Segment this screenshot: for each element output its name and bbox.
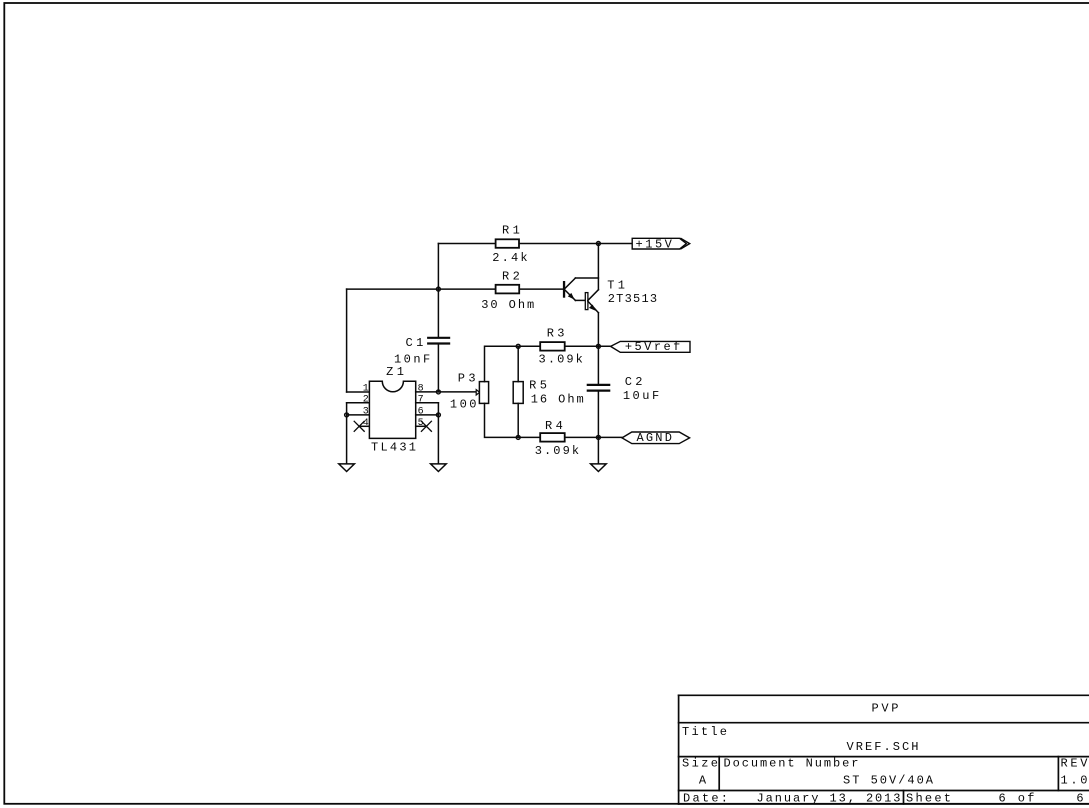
- ground symbol left: [339, 464, 355, 472]
- svg-text:PVP: PVP: [872, 702, 899, 716]
- wire pins 2-3 vertical down to ground: [346, 403, 348, 464]
- net flag AGND: [622, 432, 690, 444]
- transistor T1 Q2 collector diagonal: [588, 290, 599, 301]
- wire R1 row left segment: [438, 243, 495, 245]
- svg-text:3: 3: [363, 407, 369, 418]
- svg-text:4: 4: [363, 418, 369, 429]
- wire collector trunk upper: [597, 244, 599, 290]
- wire R5 bottom: [517, 403, 519, 437]
- wire R1 row right segment to +15V flag: [519, 243, 632, 245]
- resistor R5 body: [513, 382, 523, 404]
- junction R4 row at trunk: [596, 435, 600, 439]
- title block REV column divider: [1057, 757, 1059, 791]
- junction at pin 6: [436, 413, 440, 417]
- svg-text:TL431: TL431: [371, 440, 416, 454]
- ground symbol middle: [431, 464, 447, 472]
- title block Sheet column divider: [903, 791, 905, 804]
- power flag +15V: [632, 238, 690, 249]
- svg-text:Document Number: Document Number: [724, 756, 859, 770]
- svg-text:1: 1: [363, 384, 369, 395]
- wire R5 top: [517, 346, 519, 381]
- wire pin 1 stub: [347, 391, 370, 393]
- wire pins 7-6 vertical down to ground: [437, 403, 439, 464]
- svg-text:1.0: 1.0: [1061, 774, 1088, 788]
- junction at pin 8 and C1 trunk: [436, 390, 440, 394]
- svg-text:3.09k: 3.09k: [539, 353, 583, 367]
- junction at pin 3: [345, 413, 349, 417]
- junction R3 row at R5: [516, 344, 520, 348]
- transistor T1 second base bar: [585, 293, 588, 310]
- wire pin 2 stub: [347, 402, 370, 404]
- transistor T1 base bar: [563, 281, 565, 298]
- ground symbol right: [591, 464, 607, 472]
- svg-text:2: 2: [363, 394, 369, 405]
- no-connect X on pin 5: [421, 421, 431, 431]
- transistor T1 Q1 emitter diagonal with arrow: [565, 290, 575, 300]
- svg-text:REV: REV: [1061, 757, 1089, 771]
- wire R2 row left segment: [347, 288, 496, 290]
- wire R4 row right to AGND flag: [565, 436, 622, 438]
- title block line below Size row: [679, 790, 1089, 792]
- transistor T1 Q2 emitter diagonal with arrow: [588, 301, 599, 313]
- svg-text:6: 6: [418, 407, 424, 418]
- svg-text:Date:: Date:: [683, 791, 728, 805]
- junction at R1 row and collector trunk: [596, 242, 600, 246]
- svg-text:3.09k: 3.09k: [535, 444, 579, 458]
- transistor T1 Q1 emitter horizontal: [575, 299, 585, 301]
- potentiometer P3 body: [479, 382, 488, 404]
- wire pin 5 stub: [416, 425, 427, 427]
- junction at R2 row and trunk: [436, 287, 440, 291]
- wire pin 8 row to P3 arrow: [416, 391, 477, 393]
- title block line below PVP row: [679, 722, 1089, 724]
- svg-text:January 13, 2013: January 13, 2013: [757, 791, 901, 805]
- svg-text:ST 50V/40A: ST 50V/40A: [843, 774, 934, 788]
- wire pin 6 stub: [416, 414, 439, 416]
- title block left edge: [678, 695, 680, 804]
- title block outer top line: [679, 694, 1089, 696]
- potentiometer P3 arrow head: [476, 390, 479, 395]
- wire P3 bottom to R4 row: [485, 403, 541, 437]
- wire R3 row right to +5Vref flag: [565, 345, 611, 347]
- svg-text:+15V: +15V: [636, 237, 673, 251]
- wire R3 row left: [518, 345, 540, 347]
- wire P3 top to R3 row: [485, 346, 519, 381]
- title block line below Title row: [679, 756, 1089, 758]
- svg-text:7: 7: [418, 394, 424, 405]
- capacitor C1: [428, 338, 449, 344]
- wire C2 bottom to R4 row and ground: [597, 392, 599, 464]
- wire pin 4 stub: [359, 425, 369, 427]
- resistor R4: [540, 433, 565, 442]
- transistor T1 Q1 collector diagonal: [565, 278, 575, 288]
- wire vertical trunk from C1 down to pin 8 row: [437, 345, 439, 392]
- wire left vertical from R2 row to pin 1: [346, 289, 348, 392]
- svg-text:100: 100: [450, 398, 477, 412]
- net flag +5Vref: [611, 341, 690, 352]
- capacitor C2: [588, 385, 609, 391]
- svg-text:6: 6: [1076, 791, 1083, 805]
- no-connect X on pin 4: [354, 421, 364, 431]
- wire R2 row right segment to T1 base: [519, 288, 563, 290]
- wire vertical trunk from R1 row down to C1: [437, 244, 439, 337]
- wire emitter trunk to R3 row: [597, 313, 599, 384]
- junction R3 row at collector trunk: [596, 344, 600, 348]
- junction R4 row at R5: [516, 435, 520, 439]
- title block bottom line: [679, 803, 1089, 805]
- IC Z1 TL431 body: [369, 381, 415, 438]
- svg-text:8: 8: [418, 384, 424, 395]
- wire pin 3 stub: [347, 414, 370, 416]
- resistor R2: [496, 285, 520, 294]
- title block Size column divider: [718, 757, 720, 791]
- transistor T1 Q1 collector horizontal: [575, 277, 598, 279]
- svg-text:Title: Title: [682, 725, 727, 739]
- svg-text:A: A: [699, 774, 707, 788]
- resistor R3: [540, 342, 565, 351]
- svg-text:Sheet: Sheet: [906, 791, 951, 805]
- resistor R1: [496, 239, 519, 248]
- wire pin 7 stub: [416, 402, 439, 404]
